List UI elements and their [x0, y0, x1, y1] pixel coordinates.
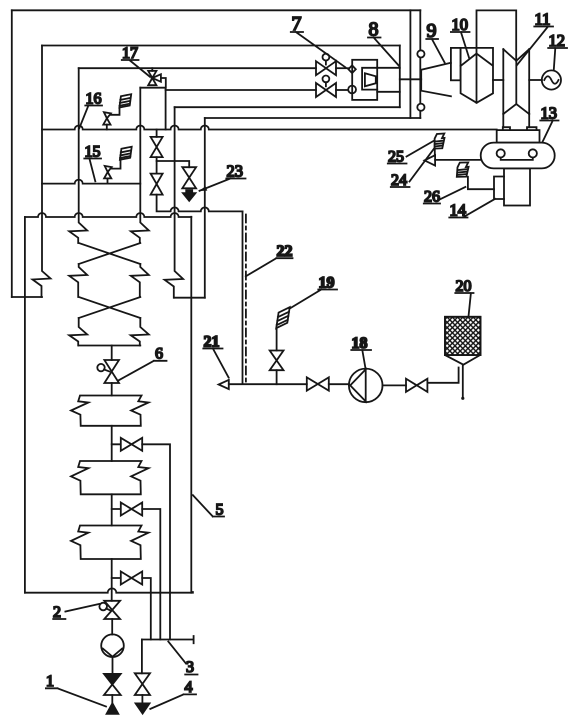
label 5	[193, 495, 224, 518]
pipe exchanger right leg x140	[131, 88, 149, 243]
label 16	[79, 91, 102, 129]
label 23	[199, 162, 246, 192]
enclosure box right edge	[399, 46, 401, 108]
wire outer box left edge	[11, 10, 13, 297]
wire stub pump to valve1	[112, 657, 114, 674]
wire valve to circle node	[336, 89, 348, 91]
label 3	[168, 642, 197, 677]
valve 17 three-way	[148, 68, 166, 88]
steam chest 8 outer	[352, 60, 377, 100]
pipe line B to turbine block	[205, 117, 420, 119]
valve B of drain group	[156, 161, 158, 174]
generator 12	[542, 70, 561, 89]
wire pump to valve V2	[383, 384, 407, 386]
label 20	[455, 278, 473, 317]
wire chest to stop valve block	[400, 78, 421, 80]
wire stub band C down	[111, 559, 113, 601]
circle node	[348, 86, 356, 94]
separator 10 chevron	[461, 54, 493, 67]
pipe drain header with end tick	[142, 636, 194, 643]
valve C of drain group	[182, 167, 196, 188]
wire stub band A to B	[111, 426, 113, 461]
pipe right leg lower segment	[131, 318, 149, 346]
wire chest outputs	[377, 68, 400, 92]
steam chest 8 keystone	[365, 73, 376, 86]
flag 26	[457, 162, 494, 189]
valve 7 lower motorized	[316, 76, 336, 98]
pipe right pair leg x204	[204, 118, 206, 298]
pipe box 5 right edge	[190, 217, 192, 593]
stop valve block verticals 9	[410, 10, 420, 118]
pipe from tank 20	[427, 368, 458, 383]
wire valve to diamond	[336, 67, 348, 69]
arrow 21 open	[219, 380, 229, 389]
label 7	[291, 13, 346, 67]
valve A of drain group	[151, 137, 163, 157]
wire stub valve2 to pump	[111, 619, 113, 635]
pipe steam line U1 to valve 7	[79, 67, 316, 69]
valve 1	[104, 674, 121, 685]
label 19	[290, 275, 338, 309]
pipe condenser neck line	[435, 159, 481, 161]
label 10	[451, 15, 470, 59]
pipe second box left edge with break	[33, 46, 51, 298]
label 11	[517, 10, 553, 66]
pipe main exhaust line C to condenser	[42, 126, 497, 130]
pump bottom	[101, 634, 124, 657]
label 9	[426, 20, 444, 63]
valve V2	[406, 379, 427, 392]
separator 10 center line	[476, 48, 478, 103]
node circle lower	[417, 104, 424, 111]
separator 10 left section	[451, 48, 461, 80]
terminal cone 1	[107, 703, 119, 714]
pipe right leg middle segment	[131, 264, 149, 297]
terminal arrow 4	[136, 703, 150, 713]
pipe steam line U2 to lower valve 7	[166, 89, 316, 91]
pipe 22 dashed line	[245, 215, 247, 384]
pipe drain collecting line L1	[157, 195, 243, 212]
pump 18	[349, 369, 383, 403]
condenser inlet box	[497, 130, 540, 143]
valve 6 with handle	[97, 346, 119, 396]
condenser internals	[497, 149, 505, 157]
pipe riser to valve 4	[141, 640, 143, 674]
label 2	[53, 604, 99, 621]
wire to pump 18	[329, 383, 349, 385]
separator 10 body	[461, 48, 493, 103]
shaft separator to LP	[493, 79, 503, 81]
pipe branch BC to collector	[142, 509, 160, 640]
arrow 24 open	[425, 155, 436, 165]
wire jog to branch	[157, 157, 190, 167]
tank 20 body	[445, 317, 481, 365]
trap symbol 16	[103, 94, 131, 129]
label 8	[368, 19, 399, 67]
valve 19 assembly	[270, 307, 290, 384]
valve 7 upper motorized	[316, 54, 336, 76]
valve group stub from line C	[156, 130, 158, 137]
valve between bands B C	[112, 503, 143, 516]
label 14	[449, 199, 495, 220]
crossing X1	[79, 243, 141, 264]
heat exchanger band C	[71, 526, 149, 560]
steam chest 8 inner	[362, 68, 377, 90]
pipe drain line E	[42, 180, 140, 184]
valve 4	[135, 673, 150, 695]
inlet tabs	[503, 127, 537, 130]
condenser shell 13	[481, 143, 555, 169]
label 18	[351, 335, 371, 369]
wire right pair bottom closure	[174, 297, 204, 299]
pipe right pair leg x174	[165, 107, 184, 298]
label 24	[391, 149, 434, 189]
wire stub valve1 to cone	[111, 695, 113, 703]
pipe branch CD to collector	[142, 578, 151, 640]
pipe junction line at y384	[229, 383, 307, 385]
pipe second box top edge	[42, 45, 400, 47]
heat exchanger band A	[71, 396, 149, 426]
flag 25	[435, 134, 445, 156]
wire exchanger bottom closure	[79, 345, 141, 347]
trap symbol 15	[104, 147, 132, 184]
pipe riser to lower junction	[242, 211, 244, 383]
label 4	[150, 679, 196, 709]
pipe branch AB to collector	[142, 444, 170, 639]
box 17 drain header rectangle	[140, 88, 165, 130]
label 26	[424, 187, 466, 206]
label 13	[540, 104, 558, 143]
label 12	[548, 31, 567, 70]
pipe tank drop leg	[462, 365, 464, 398]
node circle upper	[417, 50, 424, 57]
enclosure box bottom edge	[175, 106, 400, 108]
hotwell 14 body	[504, 168, 530, 205]
pipe left leg lower segment	[69, 318, 87, 346]
wire stub valve4 to arrow	[141, 695, 143, 703]
svg-text:4: 4	[185, 679, 193, 696]
label 21	[203, 334, 228, 378]
LP turbine 11	[503, 49, 529, 127]
hotwell bracket	[494, 177, 504, 200]
label 25	[388, 140, 435, 165]
wire bottom closure left	[12, 296, 42, 298]
pipe left leg middle segment	[69, 264, 87, 297]
heat exchanger band B	[71, 461, 149, 494]
pipe exchanger left leg x78	[69, 68, 87, 243]
label 6	[118, 346, 166, 381]
valve between bands A B	[112, 438, 143, 451]
pipe box 5 top edge	[25, 213, 191, 217]
shaft to generator	[529, 79, 542, 81]
label 15	[84, 144, 101, 182]
wire stub band B to C	[111, 494, 113, 525]
label 22	[246, 243, 293, 276]
HP turbine 9	[421, 63, 451, 97]
crossing X2	[79, 297, 141, 318]
pipe box 5 left edge	[24, 217, 26, 593]
pipe box 5 bottom edge	[25, 588, 193, 592]
svg-text:3: 3	[186, 659, 194, 676]
crossover pipe	[477, 10, 517, 60]
wire outer box top edge	[12, 9, 421, 11]
valve 2 with handle	[99, 601, 120, 619]
valve below band C	[112, 572, 143, 585]
label 1	[46, 673, 106, 707]
valve V1 on line	[307, 377, 329, 390]
diamond node	[348, 65, 355, 73]
drain arrow 23	[186, 190, 192, 192]
label 17	[122, 45, 150, 77]
